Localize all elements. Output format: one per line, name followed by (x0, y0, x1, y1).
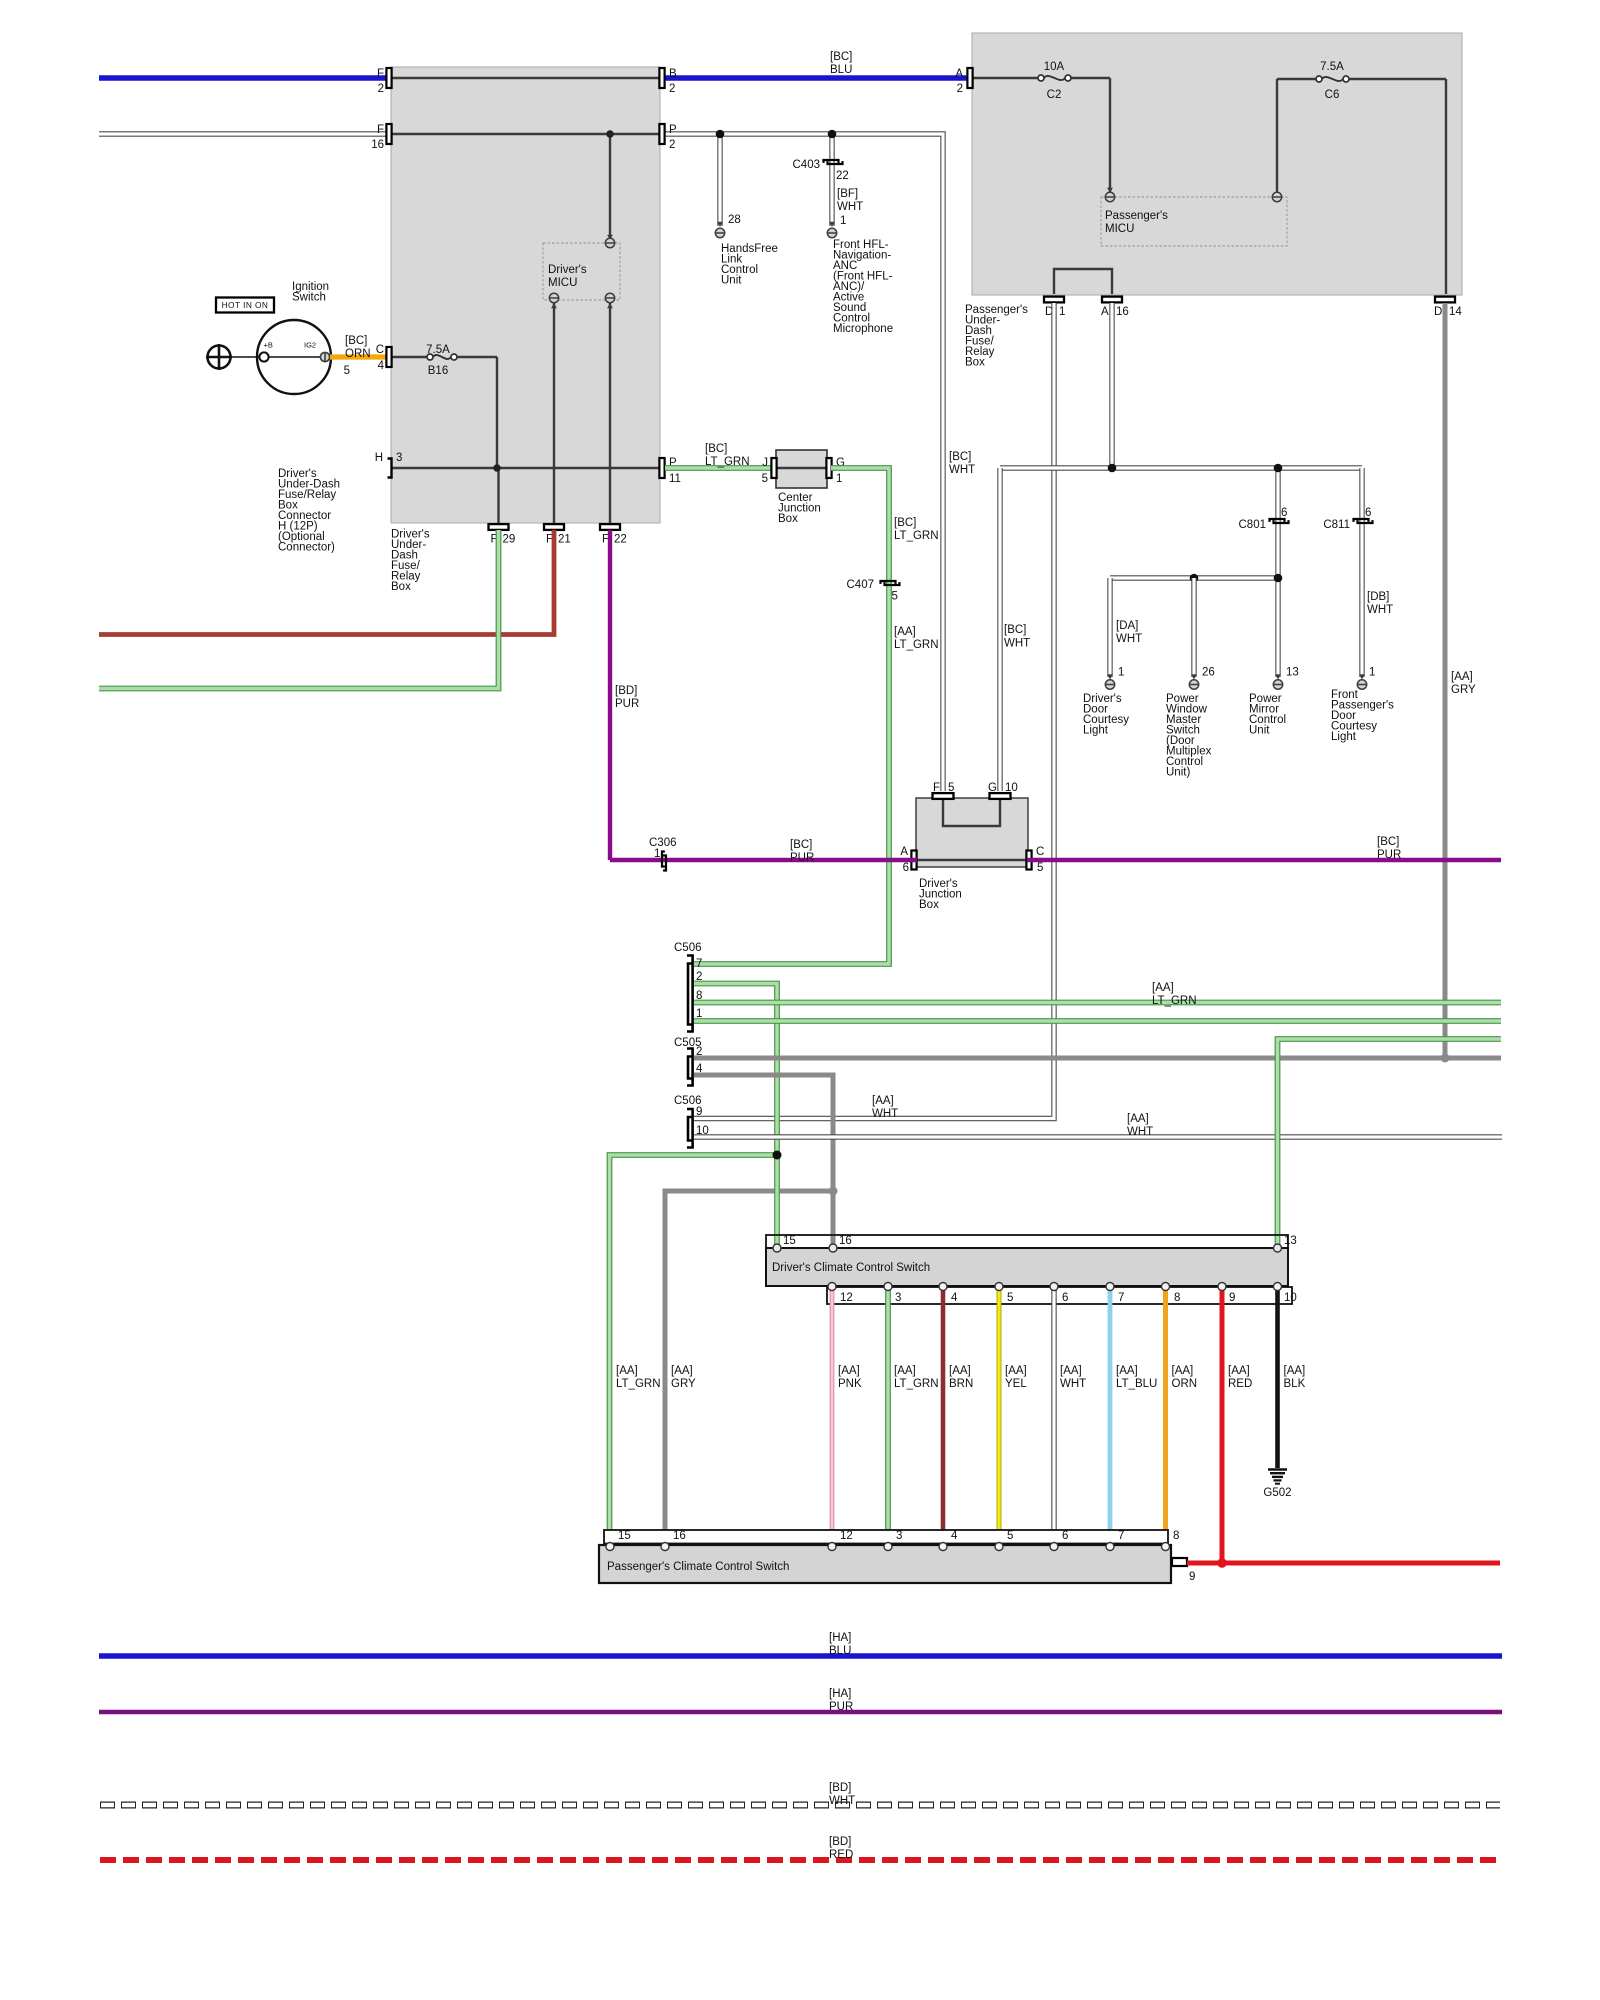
svg-text:2: 2 (669, 139, 675, 151)
inline connector C801/6 (1270, 519, 1285, 522)
svg-text:10A: 10A (1044, 61, 1065, 73)
svg-text:C: C (376, 344, 384, 356)
wire internal MICU drop from P2 row (609, 134, 611, 240)
wire gray branch to passenger switch 16 (665, 1191, 833, 1545)
svg-text:2: 2 (957, 83, 963, 95)
wire F16 white left segment (99, 131, 391, 136)
handsfree arrow+terminal 28 (717, 222, 723, 227)
wire white x1000 down to G10 (997, 468, 1002, 791)
svg-text:[AA]: [AA] (949, 1365, 971, 1377)
junction dot P2 row (606, 130, 614, 138)
wire white C801 branch to mirror unit (1275, 468, 1280, 677)
passenger's under-dash fuse/relay box (972, 33, 1462, 295)
wire C506 pin2 green to climate switches (694, 984, 777, 1156)
wire white D1 drop to C506 pin9 (694, 303, 1054, 1119)
svg-text:C506: C506 (674, 942, 702, 954)
wire C505 pin2 gray long (694, 1056, 1501, 1061)
inline connector C811/6 (1354, 519, 1369, 522)
junction dot fused feed to H3 row (493, 464, 501, 472)
svg-text:[BF]: [BF] (837, 188, 858, 200)
svg-text:2: 2 (378, 83, 384, 95)
terminal MICU bottom left (549, 293, 558, 302)
svg-text:[BC]: [BC] (830, 51, 852, 63)
connector C/4 (386, 347, 391, 367)
wire [BC]/[AA] LT_GRN from G1 down to C506 pin7 (694, 468, 889, 964)
svg-text:G: G (988, 782, 997, 794)
svg-text:F: F (933, 782, 940, 794)
passenger's climate control switch box (599, 1545, 1171, 1583)
svg-text:WHT: WHT (1004, 638, 1030, 650)
svg-text:9: 9 (1189, 1571, 1195, 1583)
svg-text:[BD]: [BD] (615, 685, 637, 697)
junction dot red (1217, 1558, 1227, 1568)
wire internal C6 branch (1276, 79, 1278, 192)
wire C506 pin8 [AA] LT_GRN (694, 1000, 1501, 1006)
svg-text:8: 8 (1174, 1292, 1180, 1304)
wire green split to passenger switch 15 (610, 1155, 778, 1545)
svg-text:Unit: Unit (1249, 725, 1270, 737)
passenger's MICU dashed box (1101, 197, 1287, 246)
svg-text:8: 8 (1173, 1530, 1179, 1542)
svg-text:[AA]: [AA] (1127, 1113, 1149, 1125)
svg-text:WHT: WHT (1060, 1378, 1086, 1390)
svg-text:[AA]: [AA] (1116, 1365, 1138, 1377)
HOT IN ON tag (216, 298, 274, 313)
svg-text:1: 1 (654, 848, 660, 860)
svg-text:Driver's: Driver's (548, 264, 587, 276)
svg-text:A: A (955, 68, 963, 80)
terminal passenger MICU right (1272, 192, 1281, 201)
driver's climate control switch connector strip top (766, 1235, 1288, 1248)
wire [BC] PUR right of junction box (1027, 858, 1501, 862)
connector A/6 (911, 851, 916, 870)
wire [AA] PNK pin12 (830, 1288, 835, 1545)
svg-text:C811: C811 (1323, 519, 1350, 531)
wire [BD] WHT dashed (100, 1802, 1500, 1809)
junction dot gray split (829, 1187, 838, 1196)
svg-text:BLU: BLU (830, 64, 852, 76)
driver's climate switch bottom strip (827, 1287, 1292, 1304)
svg-text:9: 9 (1229, 1292, 1235, 1304)
wire internal blue row (391, 77, 663, 79)
terminal front passenger's door courtesy light 1 (1359, 674, 1365, 679)
center junction box (776, 450, 827, 488)
svg-text:[AA]: [AA] (671, 1365, 693, 1377)
svg-text:7: 7 (696, 958, 702, 970)
svg-text:ORN: ORN (1172, 1378, 1198, 1390)
svg-text:GRY: GRY (1451, 684, 1476, 696)
svg-text:[BC]: [BC] (949, 451, 971, 463)
wire white horizontal y468 (1000, 465, 1362, 470)
microphone arrow+terminal 1 (829, 222, 835, 227)
svg-text:+B: +B (264, 341, 273, 350)
svg-text:15: 15 (783, 1235, 796, 1247)
wire [BD]/[BC] PUR from F22 (608, 530, 612, 860)
svg-text:[BC]: [BC] (1377, 836, 1399, 848)
svg-text:5: 5 (1037, 862, 1043, 874)
svg-text:Driver's Climate Control Switc: Driver's Climate Control Switch (772, 1262, 930, 1274)
svg-text:C: C (1036, 846, 1044, 858)
connector F/21 (544, 524, 564, 530)
svg-text:Passenger's: Passenger's (1105, 210, 1168, 222)
svg-text:22: 22 (836, 170, 849, 182)
svg-text:BLU: BLU (829, 1645, 851, 1657)
connector A/16 (1102, 297, 1122, 303)
svg-text:Passenger's Climate Control Sw: Passenger's Climate Control Switch (607, 1561, 789, 1573)
svg-text:[BC]: [BC] (345, 335, 367, 347)
svg-text:C407: C407 (847, 579, 875, 591)
wire green right edge to driver switch 13 (1278, 1039, 1502, 1246)
connector F/22 (600, 524, 620, 530)
svg-text:[AA]: [AA] (1152, 982, 1174, 994)
wire C505 pin4 gray to switch pin16 (694, 1075, 833, 1246)
svg-text:13: 13 (1286, 667, 1299, 679)
wire MICU left leg to F21 (553, 302, 555, 524)
svg-text:7.5A: 7.5A (1320, 61, 1344, 73)
wire stubs inside top strip (774, 1236, 780, 1245)
svg-text:[HA]: [HA] (829, 1688, 851, 1700)
connector P/2 (659, 124, 664, 144)
wire [BC] BLU left segment (99, 75, 391, 80)
connector C506 pins 9/10 (688, 1117, 693, 1141)
svg-text:22: 22 (614, 534, 627, 546)
svg-text:Box: Box (919, 899, 939, 911)
svg-text:[AA]: [AA] (1284, 1365, 1306, 1377)
connector J/5 (771, 458, 776, 478)
connector C506 pins 7/2/8/1 (688, 964, 693, 1025)
svg-text:J: J (762, 457, 768, 469)
svg-text:Unit: Unit (721, 275, 742, 287)
connector 9 on right edge (1172, 1558, 1187, 1566)
svg-text:BLK: BLK (1284, 1378, 1306, 1390)
svg-text:A: A (1101, 306, 1109, 318)
svg-text:P: P (669, 124, 677, 136)
svg-text:WHT: WHT (1116, 633, 1142, 645)
junction dots on y578 (1190, 574, 1199, 583)
svg-text:6: 6 (903, 862, 909, 874)
svg-text:[HA]: [HA] (829, 1632, 851, 1644)
wire white A16 drop (1109, 303, 1114, 468)
svg-text:D: D (1434, 306, 1442, 318)
svg-text:[AA]: [AA] (894, 626, 916, 638)
svg-text:1: 1 (1118, 667, 1124, 679)
svg-text:[AA]: [AA] (872, 1095, 894, 1107)
ignition +B pin (259, 352, 268, 361)
svg-text:6: 6 (1062, 1292, 1068, 1304)
svg-text:16: 16 (1116, 306, 1129, 318)
svg-text:[DA]: [DA] (1116, 620, 1138, 632)
junction dot green split (773, 1151, 782, 1160)
connector G/10 (990, 793, 1011, 799)
svg-text:F: F (377, 124, 384, 136)
svg-text:10: 10 (1284, 1292, 1297, 1304)
svg-text:WHT: WHT (1367, 604, 1393, 616)
svg-text:LT_GRN: LT_GRN (894, 530, 939, 542)
wire [AA] BRN pin4 (941, 1288, 946, 1545)
connector D/14 (1435, 297, 1455, 303)
terminal power mirror control unit 13 (1275, 674, 1281, 679)
wire [AA] LT_BLU pin7 (1108, 1288, 1113, 1545)
wire C506 pin1 [AA] LT_GRN (694, 1018, 1501, 1024)
svg-text:6: 6 (1365, 507, 1371, 519)
fuse 10A C2 (1038, 75, 1044, 81)
svg-text:PNK: PNK (838, 1378, 862, 1390)
inline connector C407/5 (881, 581, 896, 584)
wire internal ignition fused feed (391, 356, 430, 358)
wire internal D1-A16 jumper (1054, 269, 1112, 294)
svg-text:LT_GRN: LT_GRN (894, 1378, 939, 1390)
driver's junction box (916, 798, 1028, 867)
wire [AA] YEL pin5 (997, 1288, 1002, 1545)
svg-text:10: 10 (1005, 782, 1018, 794)
connector D/1 (1044, 297, 1064, 303)
wire handsfree branch white (717, 134, 722, 226)
wire [AA] WHT pin6 (1051, 1288, 1056, 1545)
svg-text:[DB]: [DB] (1367, 591, 1389, 603)
svg-text:PUR: PUR (790, 852, 814, 864)
svg-text:[BC]: [BC] (705, 443, 727, 455)
svg-text:Microphone: Microphone (833, 323, 893, 335)
svg-text:[AA]: [AA] (838, 1365, 860, 1377)
svg-text:5: 5 (1007, 1530, 1013, 1542)
svg-text:4: 4 (951, 1530, 958, 1542)
battery symbol (208, 346, 231, 369)
svg-text:Box: Box (778, 513, 798, 525)
svg-text:PUR: PUR (615, 698, 639, 710)
svg-text:5: 5 (892, 591, 898, 603)
svg-text:Box: Box (391, 581, 411, 593)
wire white DA branch to driver's door courtesy light (1107, 578, 1112, 677)
wire [HA] BLU (99, 1653, 1502, 1658)
svg-text:Light: Light (1331, 731, 1357, 743)
svg-text:WHT: WHT (949, 464, 975, 476)
svg-text:LT_GRN: LT_GRN (1152, 995, 1197, 1007)
svg-text:RED: RED (829, 1849, 853, 1861)
svg-text:ORN: ORN (345, 348, 371, 360)
wire P2 white to junction box F5 (663, 134, 943, 791)
wire white power window branch (1191, 578, 1196, 677)
svg-text:MICU: MICU (548, 277, 577, 289)
svg-text:1: 1 (840, 215, 846, 227)
svg-text:4: 4 (378, 360, 385, 372)
driver's MICU dashed box (543, 243, 620, 300)
svg-text:29: 29 (503, 534, 516, 546)
ground G502 (1268, 1468, 1287, 1471)
passenger's climate control switch strip (604, 1530, 1168, 1544)
driver's under-dash fuse/relay box (391, 67, 660, 523)
svg-text:[AA]: [AA] (616, 1365, 638, 1377)
junction dot gray D14 wire (1441, 1054, 1450, 1063)
svg-text:YEL: YEL (1005, 1378, 1027, 1390)
svg-text:16: 16 (673, 1530, 686, 1542)
wire green down to driver switch 15 (774, 1155, 780, 1246)
wire [AA] GRY from D14 (1443, 303, 1448, 1058)
pin circles passenger strip (606, 1543, 614, 1551)
terminal driver's door courtesy light 1 (1107, 674, 1113, 679)
svg-text:5: 5 (1007, 1292, 1013, 1304)
svg-text:GRY: GRY (671, 1378, 696, 1390)
svg-text:[BD]: [BD] (829, 1782, 851, 1794)
svg-text:Unit): Unit) (1166, 767, 1190, 779)
fuse 7.5A C6 (1316, 76, 1322, 82)
svg-text:21: 21 (558, 534, 571, 546)
svg-text:16: 16 (839, 1235, 852, 1247)
svg-text:11: 11 (669, 473, 681, 485)
connector C/5 (1026, 851, 1031, 870)
wire white horizontal y578 (1110, 575, 1278, 580)
svg-text:C6: C6 (1325, 89, 1340, 101)
svg-text:LT_GRN: LT_GRN (705, 456, 750, 468)
svg-text:WHT: WHT (1127, 1126, 1153, 1138)
terminal MICU top (605, 238, 614, 247)
wire C506 pin10 [AA] WHT long (694, 1134, 1502, 1139)
svg-text:2: 2 (669, 83, 675, 95)
svg-text:[BC]: [BC] (1004, 624, 1026, 636)
connector F/29 (489, 524, 509, 530)
svg-text:7.5A: 7.5A (426, 344, 450, 356)
pin circles bottom strip (828, 1283, 836, 1291)
svg-text:3: 3 (396, 452, 402, 464)
svg-text:WHT: WHT (872, 1108, 898, 1120)
svg-text:5: 5 (948, 782, 954, 794)
svg-text:C403: C403 (793, 159, 821, 171)
wire [AA] RED horizontal (1187, 1561, 1500, 1566)
connector C505 pins 2/4 (688, 1057, 693, 1079)
svg-text:G502: G502 (1263, 1487, 1291, 1499)
handsfree junction dot (716, 130, 725, 139)
svg-text:28: 28 (728, 214, 741, 226)
ignition IG2 pin (320, 352, 329, 361)
connector H/3 (388, 459, 392, 478)
svg-text:[BC]: [BC] (894, 517, 916, 529)
wire [BC] LT_GRN P11 to center junction box (665, 465, 773, 471)
svg-text:LT_BLU: LT_BLU (1116, 1378, 1157, 1390)
svg-text:16: 16 (371, 139, 384, 151)
connector F/2 (386, 68, 391, 88)
svg-text:14: 14 (1449, 306, 1462, 318)
svg-text:B: B (669, 68, 677, 80)
svg-text:IG2: IG2 (304, 341, 316, 350)
svg-text:5: 5 (762, 473, 768, 485)
svg-text:WHT: WHT (837, 201, 863, 213)
svg-text:[AA]: [AA] (894, 1365, 916, 1377)
svg-text:4: 4 (951, 1292, 958, 1304)
svg-text:[AA]: [AA] (1451, 671, 1473, 683)
svg-text:6: 6 (1062, 1530, 1068, 1542)
svg-text:[AA]: [AA] (1172, 1365, 1194, 1377)
svg-text:Box: Box (965, 357, 985, 369)
svg-text:3: 3 (895, 1292, 901, 1304)
wire [BC] ORN ignition to box (330, 354, 389, 359)
connector A/2 (967, 68, 972, 88)
wire [AA] RED pin9 (1220, 1288, 1225, 1563)
wire F21 dark red (99, 530, 554, 635)
pin circles top strip (773, 1244, 781, 1252)
svg-text:1: 1 (836, 473, 842, 485)
svg-text:LT_GRN: LT_GRN (616, 1378, 661, 1390)
terminal power window master switch 26 (1191, 674, 1197, 679)
svg-text:[BD]: [BD] (829, 1836, 851, 1848)
junction dot A16 drop (1108, 464, 1117, 473)
wire C403 branch white [BF] WHT (829, 134, 834, 226)
terminal MICU bottom right (605, 293, 614, 302)
wire [AA] ORN pin8 (1163, 1288, 1168, 1545)
wire [BD] RED dashed (100, 1857, 1500, 1863)
junction dot C801 branch (1274, 464, 1283, 473)
wire [AA] LT_GRN pin3 (885, 1288, 891, 1545)
connector F/5 (933, 793, 954, 799)
svg-text:9: 9 (696, 1106, 702, 1118)
svg-text:WHT: WHT (829, 1795, 855, 1807)
svg-text:RED: RED (1228, 1378, 1252, 1390)
connector G/1 (826, 458, 831, 478)
svg-text:Connector): Connector) (278, 542, 335, 554)
svg-text:BRN: BRN (949, 1378, 973, 1390)
svg-text:26: 26 (1202, 667, 1215, 679)
inline connector C306/1 (662, 852, 665, 867)
junction box internal purple row (917, 859, 1027, 861)
wire white C811 branch (1359, 468, 1364, 677)
svg-text:LT_GRN: LT_GRN (894, 639, 939, 651)
svg-text:PUR: PUR (829, 1701, 853, 1713)
svg-text:[AA]: [AA] (1060, 1365, 1082, 1377)
svg-text:B16: B16 (428, 365, 448, 377)
wire internal F16-P2 row (391, 133, 663, 135)
connector B/2 (659, 68, 664, 88)
svg-text:[AA]: [AA] (1228, 1365, 1250, 1377)
ignition switch circle (257, 320, 331, 394)
svg-text:Light: Light (1083, 725, 1109, 737)
C403 junction dot (828, 130, 837, 139)
wire [HA] PUR (99, 1710, 1502, 1714)
wire [BC] BLU middle segment (663, 75, 969, 80)
wire battery to ignition switch (231, 356, 259, 358)
svg-text:1: 1 (1369, 667, 1375, 679)
svg-text:15: 15 (618, 1530, 631, 1542)
wire [AA] BLK pin10 to ground (1275, 1288, 1280, 1468)
svg-text:1: 1 (1059, 306, 1065, 318)
junction box internal jumper F5-G10 (943, 799, 1000, 826)
svg-text:6: 6 (1281, 507, 1287, 519)
svg-text:7: 7 (1118, 1530, 1124, 1542)
wire MICU right leg to F22 (609, 302, 611, 524)
svg-text:C2: C2 (1047, 89, 1062, 101)
svg-text:MICU: MICU (1105, 223, 1134, 235)
svg-text:HOT IN ON: HOT IN ON (222, 300, 269, 310)
svg-text:F: F (377, 68, 384, 80)
connector F/16 (386, 124, 391, 144)
svg-text:5: 5 (344, 365, 350, 377)
inline connector C403/22 (824, 160, 839, 163)
svg-text:A: A (900, 846, 908, 858)
terminal passenger MICU left (1105, 192, 1114, 201)
svg-text:12: 12 (840, 1292, 853, 1304)
svg-text:PUR: PUR (1377, 849, 1401, 861)
svg-text:C801: C801 (1239, 519, 1267, 531)
wire internal A2 to fuse C2 (972, 77, 1041, 79)
svg-text:7: 7 (1118, 1292, 1124, 1304)
wire internal H3-P11 row (391, 467, 663, 469)
svg-text:3: 3 (896, 1530, 902, 1542)
svg-text:Switch: Switch (292, 292, 326, 304)
wire F29 green (99, 530, 499, 689)
svg-text:13: 13 (1284, 1235, 1297, 1247)
driver's climate control switch box (766, 1248, 1288, 1286)
svg-text:[BC]: [BC] (790, 839, 812, 851)
svg-text:[AA]: [AA] (1005, 1365, 1027, 1377)
svg-text:H: H (375, 452, 383, 464)
connector P/11 (659, 458, 664, 478)
